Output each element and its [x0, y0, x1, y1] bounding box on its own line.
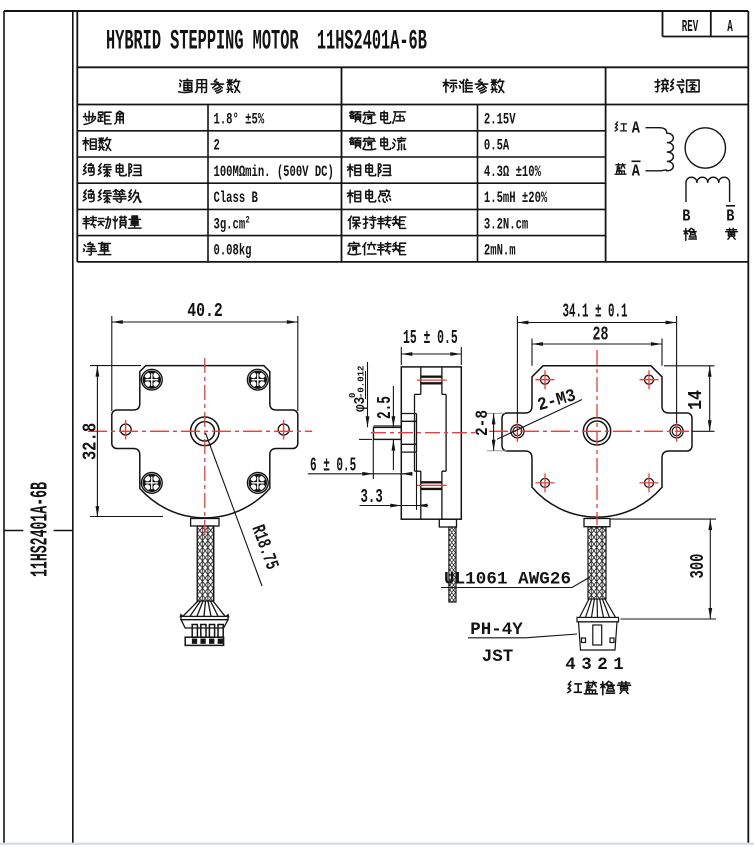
svg-text:100MΩmin. (500V DC): 100MΩmin. (500V DC)	[214, 164, 334, 182]
svg-text:300: 300	[687, 554, 709, 579]
svg-text:2-M3: 2-M3	[536, 387, 579, 417]
svg-text:2: 2	[246, 214, 250, 226]
svg-text:R18.75: R18.75	[247, 522, 283, 572]
svg-text:JST: JST	[482, 647, 514, 667]
svg-text:11HS2401A-6B: 11HS2401A-6B	[27, 482, 54, 577]
svg-text:B: B	[726, 206, 734, 226]
svg-text:40.2: 40.2	[187, 302, 223, 323]
svg-text:Class B: Class B	[214, 190, 258, 208]
svg-text:2.15V: 2.15V	[484, 112, 516, 130]
svg-text:3: 3	[581, 655, 592, 675]
svg-text:REV: REV	[682, 19, 699, 38]
svg-text:2mN.m: 2mN.m	[484, 243, 516, 261]
svg-text:0.5A: 0.5A	[484, 138, 510, 156]
svg-text:2.5: 2.5	[375, 396, 396, 419]
svg-text:1.8° ±5%: 1.8° ±5%	[214, 112, 265, 130]
svg-text:A: A	[727, 19, 733, 38]
svg-text:2: 2	[214, 138, 220, 156]
svg-text:3.2N.cm: 3.2N.cm	[484, 216, 528, 234]
svg-text:2: 2	[597, 655, 608, 675]
svg-text:3g.cm: 3g.cm	[214, 216, 246, 234]
svg-text:UL1061 AWG26: UL1061 AWG26	[444, 570, 571, 590]
svg-text:15 ± 0.5: 15 ± 0.5	[403, 327, 458, 349]
svg-text:φ3: φ3	[352, 397, 369, 412]
svg-text:3.3: 3.3	[361, 487, 383, 508]
svg-text:28: 28	[593, 323, 609, 345]
svg-text:B: B	[682, 206, 690, 226]
svg-text:32.8: 32.8	[81, 423, 102, 460]
svg-text:1: 1	[613, 655, 624, 675]
svg-text:PH-4Y: PH-4Y	[470, 620, 523, 640]
svg-text:0.08kg: 0.08kg	[214, 243, 252, 261]
svg-text:2-8: 2-8	[472, 410, 493, 436]
svg-text:6 ± 0.5: 6 ± 0.5	[310, 455, 356, 477]
svg-text:14: 14	[686, 390, 707, 410]
svg-text:4.3Ω ±10%: 4.3Ω ±10%	[484, 164, 542, 182]
svg-text:34.1 ± 0.1: 34.1 ± 0.1	[563, 301, 628, 323]
svg-text:HYBRID STEPPING MOTOR 11HS240: HYBRID STEPPING MOTOR 11HS2401A-6B	[106, 26, 427, 57]
svg-text:A: A	[632, 161, 641, 181]
svg-text:4: 4	[565, 655, 576, 675]
svg-text:1.5mH ±20%: 1.5mH ±20%	[484, 190, 548, 208]
svg-text:A: A	[632, 118, 641, 138]
